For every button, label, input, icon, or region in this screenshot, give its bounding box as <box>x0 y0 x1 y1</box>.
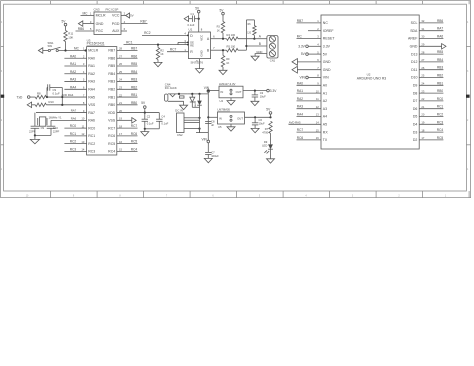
svg-text:RC6: RC6 <box>108 134 115 138</box>
wire RB7 from U3 pin 28 <box>117 47 138 51</box>
power port 5V (U1 VCC) <box>195 7 200 32</box>
svg-text:PGC: PGC <box>96 29 104 33</box>
wire RA1 to U3 pin 3 <box>64 62 86 66</box>
wire RB2 from U2 pin25 <box>419 74 443 78</box>
svg-text:SDA: SDA <box>410 29 418 33</box>
svg-text:VIN: VIN <box>299 76 305 80</box>
wire RC4 from U3 pin 15 <box>117 147 138 151</box>
svg-text:C10: C10 <box>53 126 58 130</box>
wire RA7 from U2 pin31 <box>419 27 443 31</box>
wire VIN rail <box>207 94 209 133</box>
wire B to CN1 <box>246 45 267 47</box>
frame zone ticks right <box>466 46 470 144</box>
svg-text:AVD RA5: AVD RA5 <box>289 120 301 124</box>
svg-text:D3: D3 <box>413 130 418 134</box>
svg-text:VSS: VSS <box>88 103 96 107</box>
wire RC7 from U3 pin 18 <box>117 124 138 128</box>
diode D2 <box>197 94 202 117</box>
svg-text:RB400: RB400 <box>195 100 197 107</box>
crystal Y1 16MHz <box>35 113 62 127</box>
svg-text:IN: IN <box>219 116 222 120</box>
ground arrow SW1 <box>38 48 48 53</box>
svg-text:10K: 10K <box>68 35 73 39</box>
resistor R2 <box>156 44 164 63</box>
svg-text:PGD: PGD <box>112 22 120 26</box>
wire RB7 to U2 pin1 <box>297 19 322 23</box>
svg-text:A0: A0 <box>323 84 327 88</box>
svg-text:RA7: RA7 <box>437 27 443 31</box>
svg-text:RC3: RC3 <box>437 120 444 124</box>
svg-text:10uF: 10uF <box>259 121 265 125</box>
svg-text:4700: 4700 <box>262 131 268 135</box>
svg-text:RC7: RC7 <box>170 48 177 52</box>
wire U3 VDD <box>117 111 160 113</box>
wire MCLR net <box>58 46 86 51</box>
svg-text:C9: C9 <box>41 126 45 130</box>
svg-text:100uF: 100uF <box>211 154 219 158</box>
svg-text:RA0: RA0 <box>70 54 76 58</box>
port 3.3V U2 pin4 <box>298 44 321 48</box>
svg-text:LM1117-3.3V: LM1117-3.3V <box>219 82 236 86</box>
svg-text:RE: RE <box>190 43 194 47</box>
wire RA3 to U3 pin 5 <box>64 78 86 82</box>
resistor R8 <box>35 91 86 99</box>
wire RB6 from U3 pin 27 <box>117 54 138 58</box>
svg-text:31: 31 <box>421 27 424 31</box>
power port VIN (bottom) <box>201 133 209 153</box>
svg-text:D10: D10 <box>411 76 417 80</box>
svg-text:PIC ICSP: PIC ICSP <box>106 8 119 12</box>
wire U1 B <box>211 49 227 51</box>
svg-text:C8: C8 <box>211 120 215 124</box>
wire RA0 to U2 pin9 <box>297 81 322 85</box>
wire RA2 to U3 pin 4 <box>64 70 86 74</box>
svg-text:RA1: RA1 <box>297 89 303 93</box>
svg-text:DC JACK: DC JACK <box>165 86 177 90</box>
svg-text:R2: R2 <box>160 49 164 53</box>
ground arrow CN3 pin3 <box>78 21 94 26</box>
svg-text:1K: 1K <box>226 62 229 65</box>
border frame inner <box>4 4 467 191</box>
wire U4 output 3.3V <box>243 89 277 93</box>
svg-text:18: 18 <box>421 128 424 132</box>
svg-text:RA1: RA1 <box>88 64 95 68</box>
svg-text:0.1uF: 0.1uF <box>147 122 154 126</box>
frame centerfold mark right <box>466 95 470 98</box>
capacitor C6 10uF <box>252 117 265 128</box>
svg-text:GND: GND <box>323 60 331 64</box>
svg-text:D9: D9 <box>413 84 418 88</box>
svg-text:RC3: RC3 <box>70 147 77 151</box>
wire RC2 to U1 D <box>142 31 189 36</box>
ground arrow U2 pin29 <box>419 44 446 49</box>
svg-text:RC3: RC3 <box>88 150 95 154</box>
svg-text:3.3V: 3.3V <box>323 45 331 49</box>
svg-text:A3: A3 <box>323 107 327 111</box>
svg-text:RC0: RC0 <box>88 126 95 130</box>
svg-text:3.3V: 3.3V <box>270 89 277 93</box>
wire U1 A <box>211 38 227 40</box>
svg-text:1K: 1K <box>217 30 220 33</box>
wire U5 input <box>208 116 217 118</box>
svg-text:GND: GND <box>323 68 331 72</box>
svg-text:12: 12 <box>81 132 84 136</box>
svg-text:RX: RX <box>323 130 329 134</box>
ground CN4 <box>180 105 188 109</box>
svg-text:AREF: AREF <box>408 37 417 41</box>
svg-text:RC5: RC5 <box>131 140 138 144</box>
svg-text:RC1: RC1 <box>88 134 95 138</box>
wire RC5 from U2 pin17 <box>419 136 443 140</box>
port VIN U2 pin8 <box>299 76 321 80</box>
wire RB2 from U3 pin 23 <box>117 85 138 89</box>
svg-text:RB1: RB1 <box>131 93 137 97</box>
svg-text:RC4: RC4 <box>108 150 115 154</box>
svg-text:RC5: RC5 <box>108 142 115 146</box>
connector CN2 DC IN <box>175 108 200 137</box>
svg-text:RC7: RC7 <box>131 124 138 128</box>
svg-text:U5: U5 <box>218 125 222 129</box>
wire MC to U2 pin3 <box>297 35 322 39</box>
capacitor C8 <box>196 120 215 133</box>
resistor R5 100 <box>227 45 247 52</box>
ground U1 <box>196 59 204 73</box>
capacitor C11 22PF <box>29 126 45 133</box>
svg-text:GND: GND <box>199 50 203 56</box>
svg-text:R5 100: R5 100 <box>227 45 236 49</box>
resistor R10 <box>35 100 86 106</box>
svg-text:15: 15 <box>316 128 319 132</box>
border frame outer <box>1 1 471 198</box>
wire CN3 pin4 RB7 <box>121 20 148 24</box>
svg-text:RB6: RB6 <box>131 54 137 58</box>
svg-text:D8: D8 <box>413 91 418 95</box>
resistor R3 1K <box>217 22 225 39</box>
svg-text:RA4: RA4 <box>297 113 303 117</box>
capacitor C9 0.1uF <box>46 84 64 105</box>
ground crystal <box>30 128 51 144</box>
frame zone ticks top <box>51 1 470 5</box>
svg-text:15: 15 <box>119 148 122 152</box>
svg-text:RB6: RB6 <box>108 56 115 60</box>
frame zone letters <box>1 22 469 197</box>
power port VIN (top) <box>204 86 210 94</box>
wire AVD RA5 to U2 pin14 <box>289 120 322 124</box>
svg-text:D12: D12 <box>411 60 417 64</box>
svg-text:RC2: RC2 <box>70 140 77 144</box>
capacitor C7 100uF <box>205 151 219 159</box>
wire RA1 to U2 pin10 <box>297 89 322 93</box>
wire RB3 from U3 pin 24 <box>117 78 138 82</box>
svg-text:RC0: RC0 <box>437 97 444 101</box>
svg-text:TX: TX <box>323 138 328 142</box>
wire RC5 from U3 pin 16 <box>117 140 138 144</box>
svg-text:RB5: RB5 <box>437 50 443 54</box>
wire A to CN1 <box>254 38 267 40</box>
svg-text:D7: D7 <box>413 99 418 103</box>
svg-text:0.1uF: 0.1uF <box>161 122 168 126</box>
svg-text:B: B <box>259 42 261 46</box>
wire RC2 to U3 pin 13 <box>64 140 86 144</box>
svg-text:RC5: RC5 <box>437 136 444 140</box>
svg-text:RC1: RC1 <box>437 105 444 109</box>
capacitor C10 22PF <box>47 126 60 133</box>
svg-text:TxD: TxD <box>17 95 24 99</box>
svg-text:RB0: RB0 <box>437 89 443 93</box>
frame centerfold mark left <box>1 95 5 98</box>
svg-text:C1: C1 <box>191 12 195 16</box>
svg-text:RA5: RA5 <box>88 95 95 99</box>
diode D1 RB400 <box>190 94 197 107</box>
svg-text:VDD: VDD <box>108 111 116 115</box>
wire RC1 to U1 DE/RE <box>124 40 189 45</box>
connector CN4 DC JACK <box>164 83 187 106</box>
svg-text:RA6: RA6 <box>88 119 95 123</box>
wire RC7 to U2 pin15 <box>297 128 322 132</box>
svg-text:RB3: RB3 <box>108 80 115 84</box>
wire RC0 to U3 pin 11 <box>64 124 86 128</box>
terminal block CN1 <box>267 36 278 63</box>
capacitor C3 10uF <box>252 91 266 102</box>
svg-text:RB3: RB3 <box>437 66 443 70</box>
svg-text:22PF: 22PF <box>53 129 60 133</box>
svg-text:RB6: RB6 <box>78 27 84 31</box>
resistor R9 1K (B pulldown) <box>221 49 230 70</box>
ground U3 decoupling <box>141 128 160 136</box>
svg-text:RB2: RB2 <box>108 88 115 92</box>
svg-text:VCC: VCC <box>199 35 203 41</box>
ground D9 <box>267 159 275 163</box>
svg-text:RA6: RA6 <box>71 116 77 120</box>
wire U4 input <box>207 90 219 92</box>
svg-text:17: 17 <box>119 132 122 136</box>
svg-text:RB2: RB2 <box>131 85 137 89</box>
capacitor C5 0.1uF <box>156 113 169 129</box>
wire RB6 from U2 pin32 <box>419 19 443 23</box>
svg-text:VSS: VSS <box>108 119 116 123</box>
power port 5V (U3 VDD) <box>141 101 146 113</box>
frame zone ticks left <box>1 46 4 144</box>
svg-text:RC0: RC0 <box>70 124 77 128</box>
svg-text:C2: C2 <box>147 115 151 119</box>
svg-text:C3: C3 <box>260 91 264 95</box>
wire RB5 from U3 pin 26 <box>117 62 138 66</box>
svg-text:RESET: RESET <box>323 37 336 41</box>
wire OSC2 pin10 <box>51 116 87 120</box>
resistor R11 10K <box>64 31 74 51</box>
svg-text:DC IN: DC IN <box>175 108 183 112</box>
ground arrow U3 VSS <box>117 118 136 123</box>
svg-text:R8: R8 <box>37 91 41 95</box>
IC U3 PIC16F2431 <box>81 38 122 155</box>
svg-text:D5: D5 <box>413 115 418 119</box>
svg-text:RB0: RB0 <box>108 103 115 107</box>
svg-text:16MHz Y1: 16MHz Y1 <box>49 116 62 120</box>
svg-text:RA3: RA3 <box>70 78 76 82</box>
svg-text:0.1uF: 0.1uF <box>188 23 195 27</box>
resistor R6 120 termination <box>245 20 256 47</box>
ground arrow R10 <box>27 102 35 107</box>
LED D9 <box>262 140 273 159</box>
svg-text:LM78M05: LM78M05 <box>218 107 231 111</box>
svg-text:1K: 1K <box>160 52 163 56</box>
power port 5V (U5 out) <box>266 108 272 118</box>
svg-text:IN: IN <box>221 90 224 94</box>
ground arrow U2 pin6 <box>292 59 321 66</box>
svg-text:SW: SW <box>48 44 53 48</box>
wire RA2 to U2 pin11 <box>297 97 322 101</box>
svg-text:RC6: RC6 <box>297 136 304 140</box>
svg-text:MC: MC <box>83 12 89 16</box>
svg-text:CN3: CN3 <box>94 8 100 12</box>
svg-text:RC1: RC1 <box>126 40 133 44</box>
svg-text:RB4: RB4 <box>108 72 115 76</box>
svg-text:RB6: RB6 <box>437 19 443 23</box>
svg-text:RA1: RA1 <box>70 62 76 66</box>
switch SW1 <box>48 41 61 52</box>
svg-text:MCLR: MCLR <box>88 49 98 53</box>
svg-text:D4: D4 <box>413 123 418 127</box>
svg-text:RB7: RB7 <box>140 20 146 24</box>
wire RA3 to U2 pin12 <box>297 105 322 109</box>
wire RA4 to U2 pin13 <box>297 113 322 117</box>
svg-text:CN1: CN1 <box>270 58 276 62</box>
resistor R4 100 <box>227 33 255 40</box>
svg-text:C6: C6 <box>259 118 263 122</box>
ground C6 <box>251 128 259 132</box>
connector CN3 PIC ICSP <box>90 8 126 35</box>
svg-text:NC: NC <box>323 21 329 25</box>
capacitor C1 0.1uF <box>184 12 199 27</box>
svg-text:MC: MC <box>74 46 80 50</box>
ground U5 <box>227 124 235 131</box>
svg-text:uF: uF <box>211 123 214 127</box>
node B label <box>259 42 261 46</box>
svg-text:RB7: RB7 <box>108 49 115 53</box>
wire RB5 from U2 pin28 <box>419 50 443 54</box>
svg-text:RC2: RC2 <box>144 31 151 35</box>
ground C3 <box>251 101 259 105</box>
IC U1 SN75176 <box>184 28 215 65</box>
svg-text:VIN: VIN <box>201 137 207 141</box>
svg-text:RA2: RA2 <box>88 72 95 76</box>
wire RB1 from U2 pin24 <box>419 81 443 85</box>
wire RB4 from U2 pin27 <box>419 58 443 62</box>
wire RC4 from U2 pin18 <box>419 128 443 132</box>
label AVD RA5 pin7 <box>62 93 74 97</box>
svg-text:RB4: RB4 <box>131 70 137 74</box>
port 5V U2 pin5 <box>301 52 321 56</box>
svg-text:RA4: RA4 <box>88 88 95 92</box>
svg-text:C4: C4 <box>161 115 165 119</box>
svg-text:RB2: RB2 <box>437 74 443 78</box>
svg-text:RA3: RA3 <box>88 80 95 84</box>
svg-text:5V: 5V <box>323 52 328 56</box>
svg-text:RA0: RA0 <box>297 81 303 85</box>
svg-text:OUT: OUT <box>237 116 243 120</box>
wire RC0 from U2 pin22 <box>419 97 443 101</box>
wire OSC1 pin9 <box>36 109 87 113</box>
svg-text:D9: D9 <box>264 140 268 144</box>
wire RC3 to U3 pin 14 <box>64 147 86 151</box>
wire CN3 pin6 stub <box>121 30 127 32</box>
wire RC6 to U2 pin16 <box>297 136 322 140</box>
svg-text:ARDUINO UNO R3: ARDUINO UNO R3 <box>357 76 387 80</box>
wire RC1 to U3 pin 12 <box>64 132 86 136</box>
svg-text:R4 100: R4 100 <box>227 33 236 37</box>
svg-text:RC4: RC4 <box>437 128 444 132</box>
wire RA6 from U2 pin30 <box>419 35 443 39</box>
svg-text:GND: GND <box>96 22 104 26</box>
svg-text:C7: C7 <box>211 151 215 155</box>
svg-text:RA7: RA7 <box>71 109 77 113</box>
svg-text:GND: GND <box>410 45 418 49</box>
svg-text:RA7: RA7 <box>88 111 95 115</box>
svg-text:RB0: RB0 <box>131 101 137 105</box>
svg-text:RC4: RC4 <box>131 147 138 151</box>
wire RB3 from U2 pin26 <box>419 66 443 70</box>
svg-text:R7: R7 <box>265 127 269 131</box>
wire CN3 pin1 MC <box>81 12 95 16</box>
ground C7 <box>204 158 212 162</box>
wire RC2 from U2 pin20 <box>419 113 443 117</box>
svg-text:RC7: RC7 <box>297 128 304 132</box>
svg-text:U4: U4 <box>220 99 224 103</box>
svg-text:5V: 5V <box>130 14 134 18</box>
svg-text:RB7: RB7 <box>131 47 137 51</box>
svg-text:0.1uF: 0.1uF <box>53 92 60 96</box>
svg-text:RC7: RC7 <box>108 126 115 130</box>
wire RA0 to U3 pin 2 <box>64 54 86 58</box>
svg-text:AUX: AUX <box>112 29 120 33</box>
svg-text:CN2: CN2 <box>177 133 183 137</box>
svg-text:RC6: RC6 <box>131 132 138 136</box>
svg-text:RB3: RB3 <box>131 78 137 82</box>
svg-text:IOREF: IOREF <box>323 29 334 33</box>
svg-text:RB7: RB7 <box>297 19 303 23</box>
resistor R7 4700 <box>262 121 272 144</box>
wire RC3 from U2 pin19 <box>419 120 443 124</box>
svg-text:SCL: SCL <box>411 21 418 25</box>
svg-text:RA3: RA3 <box>297 105 303 109</box>
svg-text:A5: A5 <box>323 123 327 127</box>
svg-text:RA2: RA2 <box>70 70 76 74</box>
svg-text:RB1: RB1 <box>437 81 443 85</box>
svg-text:RC1: RC1 <box>70 132 77 136</box>
wire RB4 from U3 pin 25 <box>117 70 138 74</box>
wire RC7 to U1 R <box>167 48 189 52</box>
svg-text:PIC16F2431: PIC16F2431 <box>87 42 105 46</box>
svg-text:RA6: RA6 <box>437 35 443 39</box>
svg-text:10uF: 10uF <box>260 94 266 98</box>
wire diode join <box>192 106 199 108</box>
wire CN3 pin5 RB6 <box>76 27 95 31</box>
svg-text:A1: A1 <box>323 91 327 95</box>
wire RA4 to U3 pin 6 <box>64 85 86 89</box>
svg-text:14: 14 <box>81 148 84 152</box>
svg-text:MC: MC <box>297 35 303 39</box>
ground U4 <box>227 98 235 105</box>
svg-text:RB4: RB4 <box>437 58 443 62</box>
wire RC6 from U3 pin 17 <box>117 132 138 136</box>
svg-text:D13: D13 <box>411 52 417 56</box>
ground arrow U2 pin7 <box>292 66 321 73</box>
svg-text:D6: D6 <box>413 107 418 111</box>
ground R2 <box>154 62 162 66</box>
svg-text:U1: U1 <box>189 28 193 32</box>
svg-text:VIN: VIN <box>204 86 210 90</box>
wire VIN top rail <box>188 93 209 95</box>
